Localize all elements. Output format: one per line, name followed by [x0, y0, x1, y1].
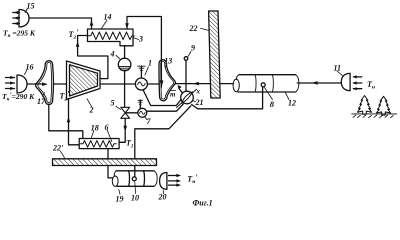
svg-text:12: 12: [288, 99, 296, 108]
svg-text:1: 1: [148, 59, 152, 68]
svg-text:8: 8: [270, 99, 275, 109]
svg-text:16: 16: [26, 63, 34, 72]
svg-text:14: 14: [104, 13, 112, 22]
svg-text:10: 10: [131, 194, 139, 203]
svg-text:22: 22: [189, 24, 198, 33]
svg-text:15: 15: [27, 2, 35, 11]
svg-text:4: 4: [110, 50, 115, 59]
svg-text:20: 20: [158, 193, 167, 202]
svg-text:Фиг.1: Фиг.1: [193, 199, 213, 208]
svg-text:21: 21: [195, 98, 204, 107]
svg-text:6: 6: [105, 123, 109, 132]
svg-text:3: 3: [138, 35, 143, 44]
svg-text:х: х: [196, 88, 201, 96]
svg-text:22': 22': [52, 144, 64, 153]
svg-text:2: 2: [89, 106, 94, 115]
svg-text:m: m: [170, 91, 176, 99]
svg-text:11: 11: [334, 64, 342, 73]
svg-text:13: 13: [164, 56, 172, 65]
svg-text:9: 9: [191, 44, 195, 53]
svg-text:18: 18: [91, 124, 99, 133]
svg-text:5: 5: [111, 99, 115, 108]
svg-text:19: 19: [116, 195, 124, 204]
svg-text:17: 17: [37, 97, 46, 106]
